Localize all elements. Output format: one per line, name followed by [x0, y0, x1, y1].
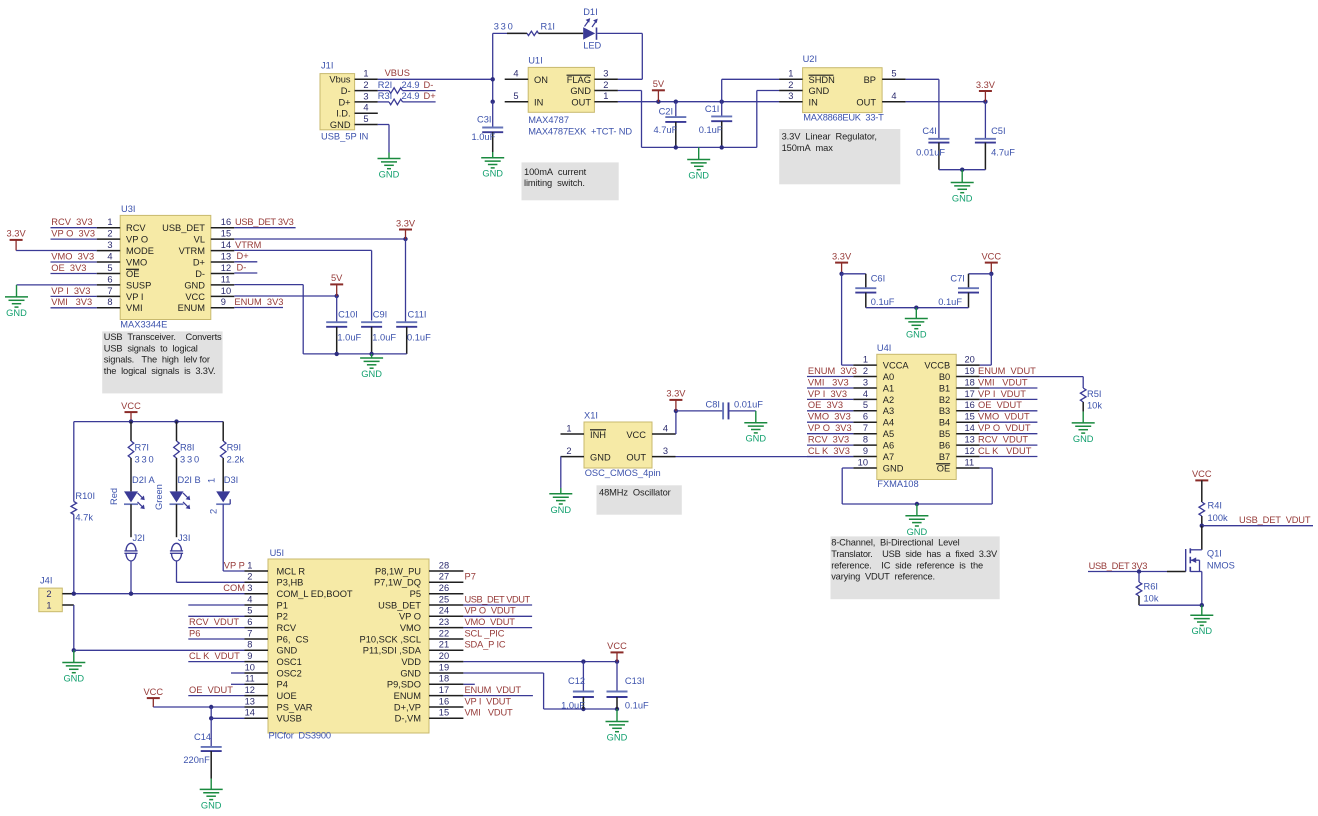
- svg-text:1.0uF: 1.0uF: [561, 701, 585, 711]
- svg-text:I.D.: I.D.: [336, 109, 350, 119]
- svg-text:2: 2: [603, 80, 608, 90]
- power VCC at C13I: [607, 641, 627, 661]
- resistor R4I: [1199, 480, 1228, 528]
- svg-text:VP O 3V3: VP O 3V3: [51, 229, 95, 239]
- wire OSC OUT to U4I A7: [676, 456, 854, 458]
- wire GND rail U3I caps: [303, 352, 407, 358]
- resistor R3I: [378, 91, 436, 105]
- svg-text:R4I: R4I: [1208, 501, 1222, 511]
- svg-text:R3I: R3I: [378, 91, 392, 101]
- svg-text:2: 2: [363, 80, 368, 90]
- svg-text:24.9: 24.9: [402, 91, 420, 101]
- svg-text:17: 17: [439, 685, 449, 695]
- svg-text:1.0uF: 1.0uF: [337, 332, 361, 342]
- svg-text:ON: ON: [534, 75, 548, 85]
- svg-text:GND: GND: [883, 463, 904, 473]
- svg-text:9: 9: [221, 297, 226, 307]
- svg-text:48MHz Oscillator: 48MHz Oscillator: [599, 488, 671, 498]
- svg-text:R5I: R5I: [1087, 389, 1101, 399]
- svg-text:C7I: C7I: [950, 274, 964, 284]
- connector J4I: [39, 576, 74, 612]
- LED D2IA (Red): [109, 475, 156, 509]
- oscillator X1I: [561, 410, 676, 477]
- net label ENUM VDUT: [463, 685, 533, 696]
- svg-text:C10I: C10I: [338, 310, 358, 320]
- svg-text:FXMA108: FXMA108: [877, 479, 918, 489]
- svg-text:D+: D+: [424, 91, 436, 101]
- svg-text:3.3V: 3.3V: [396, 218, 416, 228]
- svg-text:18: 18: [439, 674, 449, 684]
- note 3.3V regulator: [779, 129, 900, 184]
- note 100mA switch: [522, 162, 619, 200]
- note USB transceiver: [102, 331, 222, 393]
- wire U3I VCC to 5V: [234, 294, 339, 298]
- svg-text:P4: P4: [277, 680, 288, 690]
- svg-text:VMO 3V3: VMO 3V3: [808, 412, 851, 422]
- svg-text:VMO VDUT: VMO VDUT: [978, 412, 1030, 422]
- svg-text:0.01uF: 0.01uF: [734, 400, 763, 410]
- net label P7: [465, 572, 476, 582]
- resistor R8I: [174, 422, 201, 492]
- svg-text:D3I: D3I: [224, 475, 238, 485]
- svg-text:MAX3344E: MAX3344E: [120, 320, 167, 330]
- svg-text:25: 25: [439, 594, 449, 604]
- svg-text:VP O 3V3: VP O 3V3: [808, 423, 852, 433]
- svg-text:5: 5: [891, 69, 896, 79]
- transceiver U3I: [97, 204, 235, 330]
- net label VTRM: [234, 240, 371, 321]
- svg-text:GND: GND: [184, 280, 205, 290]
- svg-text:SDA_P IC: SDA_P IC: [465, 640, 506, 650]
- svg-text:VCC: VCC: [626, 430, 646, 440]
- svg-text:A7: A7: [883, 452, 894, 462]
- svg-text:VMI 3V3: VMI 3V3: [51, 297, 92, 307]
- svg-text:C6I: C6I: [871, 274, 885, 284]
- svg-text:P5: P5: [410, 589, 421, 599]
- svg-text:4: 4: [363, 103, 368, 113]
- net label VP I 3V3 (U4I pin 4): [807, 389, 853, 400]
- net label VP O 3V3 (U4I pin 7): [807, 423, 853, 434]
- svg-text:100k: 100k: [1208, 513, 1229, 523]
- svg-text:13: 13: [965, 435, 975, 445]
- wire R6I to source: [1139, 603, 1204, 615]
- svg-text:5: 5: [513, 91, 518, 101]
- svg-text:26: 26: [439, 583, 449, 593]
- jumper J3I: [170, 533, 191, 561]
- svg-text:0.1uF: 0.1uF: [625, 701, 649, 711]
- wire J3I to U5I P3: [177, 561, 245, 582]
- svg-text:0.1uF: 0.1uF: [938, 297, 962, 307]
- svg-text:16: 16: [965, 400, 975, 410]
- power 5V at U3I VCC: [330, 273, 343, 296]
- svg-text:VMI VDUT: VMI VDUT: [465, 708, 514, 718]
- svg-text:GND: GND: [907, 527, 928, 537]
- svg-text:P6: P6: [189, 628, 200, 638]
- resistor R1I: [494, 22, 555, 36]
- svg-text:4: 4: [107, 251, 112, 261]
- svg-text:C5I: C5I: [991, 126, 1005, 136]
- svg-text:20: 20: [965, 355, 975, 365]
- net label D+: [424, 91, 436, 101]
- svg-text:3: 3: [863, 377, 868, 387]
- svg-text:RCV: RCV: [277, 623, 297, 633]
- svg-text:P7,1W_DQ: P7,1W_DQ: [374, 578, 421, 588]
- ground under J4I: [62, 663, 85, 684]
- svg-text:INH: INH: [590, 430, 606, 440]
- wire to R1I: [491, 33, 525, 104]
- svg-text:C13I: C13I: [625, 676, 645, 686]
- svg-text:1: 1: [363, 69, 368, 79]
- svg-text:1: 1: [788, 69, 793, 79]
- svg-text:U5I: U5I: [270, 548, 284, 558]
- svg-text:USB_5P IN: USB_5P IN: [321, 131, 368, 141]
- svg-text:C4I: C4I: [922, 126, 936, 136]
- svg-text:16: 16: [439, 696, 449, 706]
- wire U1I GND to rail: [618, 91, 642, 148]
- net label RCV 3V3 (U4I pin 8): [807, 435, 853, 446]
- svg-text:VCC: VCC: [1192, 469, 1212, 479]
- svg-text:B1: B1: [939, 383, 950, 393]
- net label CL K VDUT (U4I pin 12): [978, 446, 1037, 457]
- svg-text:OE: OE: [937, 463, 950, 473]
- wire VDD to VCC: [463, 659, 619, 663]
- svg-text:GND: GND: [688, 171, 709, 181]
- capacitor C11I: [396, 239, 431, 354]
- svg-text:R1I: R1I: [541, 22, 555, 32]
- svg-text:5: 5: [863, 400, 868, 410]
- svg-text:3: 3: [363, 91, 368, 101]
- svg-text:VCC: VCC: [607, 641, 627, 651]
- wire GND rail C4I C5I: [939, 168, 986, 183]
- ground under Q1I: [1190, 615, 1213, 636]
- svg-text:7: 7: [863, 423, 868, 433]
- svg-text:NMOS: NMOS: [1207, 561, 1235, 571]
- svg-text:11: 11: [245, 674, 255, 684]
- svg-text:ENUM 3V3: ENUM 3V3: [234, 297, 283, 307]
- svg-text:GND: GND: [400, 668, 421, 678]
- svg-text:2: 2: [247, 572, 252, 582]
- svg-text:0.1uF: 0.1uF: [871, 297, 895, 307]
- net label SDA_P IC: [465, 640, 506, 650]
- svg-text:2: 2: [788, 80, 793, 90]
- svg-text:ENUM VDUT: ENUM VDUT: [465, 685, 522, 695]
- svg-text:VCC: VCC: [121, 401, 141, 411]
- svg-text:D-,VM: D-,VM: [395, 714, 421, 724]
- svg-text:A2: A2: [883, 395, 894, 405]
- svg-text:GND: GND: [6, 308, 27, 318]
- svg-text:USB Transceiver. Converts: USB Transceiver. Converts: [104, 332, 222, 342]
- resistor R6I: [1136, 572, 1159, 606]
- svg-text:2: 2: [209, 509, 219, 514]
- power 3.3V (regulator out): [976, 80, 996, 102]
- svg-text:D+,VP: D+,VP: [394, 702, 421, 712]
- svg-text:U1I: U1I: [528, 56, 542, 66]
- svg-text:14: 14: [245, 708, 255, 718]
- capacitor C7I: [938, 274, 991, 308]
- svg-text:14: 14: [221, 240, 231, 250]
- svg-text:J3I: J3I: [178, 533, 190, 543]
- level translator U4I: [853, 343, 979, 489]
- svg-text:VP I 3V3: VP I 3V3: [51, 286, 90, 296]
- svg-text:SCL _PIC: SCL _PIC: [465, 628, 505, 638]
- wire BP to C4I: [906, 79, 939, 139]
- regulator U2I: [779, 54, 906, 123]
- svg-text:11: 11: [221, 274, 231, 284]
- svg-text:OUT: OUT: [571, 97, 591, 107]
- wire P4 stub: [231, 683, 245, 685]
- svg-text:GND: GND: [590, 453, 611, 463]
- ground under C14: [200, 789, 223, 810]
- svg-text:5V: 5V: [653, 79, 665, 89]
- net label VMI VDUT (U4I pin 18): [978, 377, 1037, 388]
- net label RCV VDUT (U4I pin 13): [978, 435, 1037, 446]
- svg-text:0.01uF: 0.01uF: [916, 148, 945, 158]
- svg-text:OE 3V3: OE 3V3: [51, 263, 86, 273]
- svg-text:GND: GND: [379, 170, 400, 180]
- svg-text:22: 22: [439, 628, 449, 638]
- wire U3I GND down: [234, 285, 303, 354]
- svg-text:10k: 10k: [1087, 401, 1102, 411]
- svg-text:1.0uF: 1.0uF: [372, 332, 396, 342]
- resistor R9I: [220, 422, 244, 492]
- svg-text:9: 9: [863, 446, 868, 456]
- wire D2IB to J3I: [176, 504, 178, 537]
- wire OUT to 3.3V: [906, 100, 988, 104]
- power VCC at U4I: [981, 251, 1001, 276]
- svg-text:P3,HB: P3,HB: [277, 578, 304, 588]
- connector J1I: [320, 61, 378, 142]
- svg-text:OSC2: OSC2: [277, 668, 302, 678]
- svg-text:Translator. USB side has: Translator. USB side has a fixed 3.3V: [831, 549, 998, 559]
- svg-text:330: 330: [135, 455, 156, 465]
- svg-text:B6: B6: [939, 441, 950, 451]
- svg-text:RCV VDUT: RCV VDUT: [189, 617, 239, 627]
- capacitor C12: [561, 662, 594, 711]
- transistor Q1I: [1186, 526, 1235, 606]
- svg-text:VP I VDUT: VP I VDUT: [978, 389, 1026, 399]
- svg-text:GND: GND: [63, 674, 84, 684]
- wire J2I to COM: [130, 561, 132, 593]
- power 3.3V at U3I VL: [396, 218, 416, 239]
- ground under U4I: [905, 516, 928, 537]
- svg-text:VMO 3V3: VMO 3V3: [51, 251, 94, 261]
- svg-text:8-Channel, Bi-Directional Le: 8-Channel, Bi-Directional Level: [831, 538, 959, 548]
- svg-text:PICfor DS3900: PICfor DS3900: [269, 731, 331, 741]
- svg-text:VBUS: VBUS: [385, 68, 410, 78]
- wire GND rail C6I C7I: [866, 306, 969, 319]
- net label VP I VDUT (U4I pin 17): [978, 389, 1037, 400]
- svg-text:D-: D-: [341, 86, 351, 96]
- net label VP I 3V3 (U3I pin 7): [51, 286, 97, 297]
- svg-text:3.3V: 3.3V: [976, 80, 996, 90]
- svg-text:PS_VAR: PS_VAR: [277, 702, 313, 712]
- svg-text:P9,SDO: P9,SDO: [387, 680, 421, 690]
- svg-text:GND: GND: [550, 505, 571, 515]
- capacitor C4I: [916, 126, 949, 170]
- svg-text:Green: Green: [154, 484, 164, 510]
- svg-text:4: 4: [513, 69, 518, 79]
- wire GND rail U1I: [642, 145, 757, 159]
- svg-text:12: 12: [221, 263, 231, 273]
- svg-text:GND: GND: [952, 194, 973, 204]
- svg-text:1: 1: [46, 600, 51, 610]
- svg-text:VDD: VDD: [401, 657, 421, 667]
- current limit switch U1I: [505, 56, 633, 137]
- svg-text:D-: D-: [424, 80, 434, 90]
- svg-text:MAX8868EUK 33-T: MAX8868EUK 33-T: [803, 113, 884, 123]
- svg-text:16: 16: [221, 217, 231, 227]
- ground under C3I: [481, 158, 504, 179]
- svg-text:MCL R: MCL R: [277, 566, 306, 576]
- svg-text:R8I: R8I: [180, 443, 194, 453]
- svg-text:MAX4787: MAX4787: [528, 115, 569, 125]
- svg-text:RCV 3V3: RCV 3V3: [51, 217, 92, 227]
- svg-text:USB signals to logical: USB signals to logical: [104, 343, 198, 353]
- svg-text:17: 17: [965, 389, 975, 399]
- wire VCC to 3.3V: [674, 409, 723, 434]
- svg-text:USB_DET: USB_DET: [162, 223, 205, 233]
- resistor R7I: [128, 422, 155, 492]
- net label RCV VDUT (U5I): [188, 617, 244, 628]
- svg-text:VP O VDUT: VP O VDUT: [978, 423, 1031, 433]
- svg-text:C12: C12: [568, 676, 585, 686]
- ground under C6I C7I: [905, 319, 928, 340]
- wire P1: [188, 604, 244, 606]
- diode D3I: [207, 475, 239, 514]
- svg-text:1: 1: [247, 560, 252, 570]
- svg-text:USB_DET: USB_DET: [378, 600, 421, 610]
- ground under X1I: [549, 494, 572, 515]
- svg-text:B2: B2: [939, 395, 950, 405]
- svg-text:GND: GND: [1191, 626, 1212, 636]
- svg-text:FLAG: FLAG: [567, 75, 591, 85]
- wire SHDN to 5V: [722, 79, 779, 101]
- svg-text:VMO: VMO: [126, 257, 147, 267]
- svg-text:5: 5: [107, 263, 112, 273]
- capacitor C6I: [842, 274, 895, 308]
- svg-text:RCV: RCV: [126, 223, 146, 233]
- ground under C2I C1I: [687, 160, 710, 181]
- net label COM: [223, 583, 245, 593]
- svg-text:BP: BP: [864, 75, 876, 85]
- svg-text:P2: P2: [277, 612, 288, 622]
- svg-text:3: 3: [603, 69, 608, 79]
- svg-text:3: 3: [107, 240, 112, 250]
- svg-text:5: 5: [363, 114, 368, 124]
- svg-text:GND: GND: [607, 733, 628, 743]
- svg-text:23: 23: [439, 617, 449, 627]
- svg-text:0.1uF: 0.1uF: [407, 332, 431, 342]
- ground at U3I SUSP: [5, 297, 28, 318]
- svg-text:10: 10: [245, 662, 255, 672]
- svg-text:COM: COM: [223, 583, 245, 593]
- svg-text:1: 1: [107, 217, 112, 227]
- svg-text:P11,SDI ,SDA: P11,SDI ,SDA: [363, 646, 422, 656]
- net label ENUM VDUT (U4I pin 19): [978, 366, 1083, 377]
- resistor R2I: [378, 80, 436, 94]
- svg-text:5V: 5V: [331, 273, 343, 283]
- svg-text:P10,SCK ,SCL: P10,SCK ,SCL: [360, 634, 422, 644]
- net label USB_DET 3V3: [234, 217, 295, 228]
- svg-text:VP P: VP P: [224, 560, 245, 570]
- svg-text:VP I: VP I: [126, 292, 143, 302]
- svg-text:GND: GND: [745, 434, 766, 444]
- svg-text:GND: GND: [201, 800, 222, 810]
- net label ENUM 3V3: [234, 297, 283, 308]
- svg-text:VMI 3V3: VMI 3V3: [808, 377, 849, 387]
- svg-text:CL K VDUT: CL K VDUT: [978, 446, 1032, 456]
- wire VCC to PS_VAR VUSB: [153, 705, 244, 721]
- power VCC at R4I: [1192, 469, 1212, 480]
- svg-text:13: 13: [221, 251, 231, 261]
- svg-text:D-: D-: [237, 262, 247, 272]
- svg-text:GND: GND: [906, 330, 927, 340]
- power 5V: [652, 79, 665, 102]
- svg-text:5: 5: [247, 606, 252, 616]
- net label VMO 3V3 (U4I pin 6): [807, 412, 853, 423]
- svg-text:19: 19: [439, 662, 449, 672]
- svg-text:18: 18: [965, 377, 975, 387]
- wire SUSP to ground: [17, 285, 97, 297]
- svg-text:8: 8: [863, 435, 868, 445]
- net label D+ (U3I): [234, 251, 257, 262]
- net label VMI VDUT: [465, 708, 514, 718]
- capacitor C9I: [361, 310, 396, 354]
- net label SCL _PIC: [465, 628, 505, 638]
- svg-text:2: 2: [863, 366, 868, 376]
- svg-text:J4I: J4I: [40, 576, 52, 586]
- svg-text:28: 28: [439, 560, 449, 570]
- svg-text:MODE: MODE: [126, 246, 154, 256]
- svg-text:24.9: 24.9: [402, 80, 420, 90]
- ground under C4I C5I: [951, 183, 974, 204]
- svg-text:VMI VDUT: VMI VDUT: [978, 377, 1028, 387]
- net label RCV 3V3 (U3I pin 1): [51, 217, 97, 228]
- svg-text:VP O: VP O: [399, 612, 421, 622]
- svg-text:6: 6: [863, 412, 868, 422]
- svg-text:OE VDUT: OE VDUT: [189, 685, 233, 695]
- svg-text:MAX4787EXK +TCT- ND: MAX4787EXK +TCT- ND: [528, 127, 632, 137]
- svg-text:150mA max: 150mA max: [782, 143, 834, 153]
- svg-text:GND: GND: [361, 369, 382, 379]
- capacitor C10I: [326, 296, 361, 354]
- svg-text:4.7k: 4.7k: [75, 513, 93, 523]
- svg-text:J1I: J1I: [321, 61, 333, 71]
- svg-text:signals. The high lelv for: signals. The high lelv for: [104, 355, 210, 365]
- net label VP O VDUT: [463, 606, 532, 617]
- net label USB_DET 3V3 (gate): [1088, 561, 1186, 574]
- svg-text:USB_DET VDUT: USB_DET VDUT: [1239, 515, 1311, 525]
- svg-text:VTRM: VTRM: [235, 240, 261, 250]
- net label OE 3V3 (U4I pin 5): [807, 400, 853, 411]
- resistor R5I: [1080, 377, 1102, 423]
- svg-text:D1I: D1I: [583, 7, 597, 17]
- svg-text:1: 1: [863, 355, 868, 365]
- svg-text:P8,1W_PU: P8,1W_PU: [375, 566, 421, 576]
- svg-text:C8I: C8I: [706, 400, 720, 410]
- ground under U3I caps: [360, 358, 383, 379]
- wire U4I GND OE rail: [842, 468, 992, 516]
- svg-text:USB_DET 3V3: USB_DET 3V3: [235, 217, 294, 227]
- svg-text:C1I: C1I: [705, 104, 719, 114]
- net label VMO VDUT: [463, 617, 532, 628]
- capacitor C14: [183, 718, 221, 789]
- net label USB_DET VDUT: [1202, 515, 1313, 526]
- svg-text:ENUM 3V3: ENUM 3V3: [808, 366, 857, 376]
- svg-text:OE 3V3: OE 3V3: [808, 400, 843, 410]
- svg-text:330: 330: [180, 455, 201, 465]
- svg-text:3.3V: 3.3V: [7, 229, 27, 239]
